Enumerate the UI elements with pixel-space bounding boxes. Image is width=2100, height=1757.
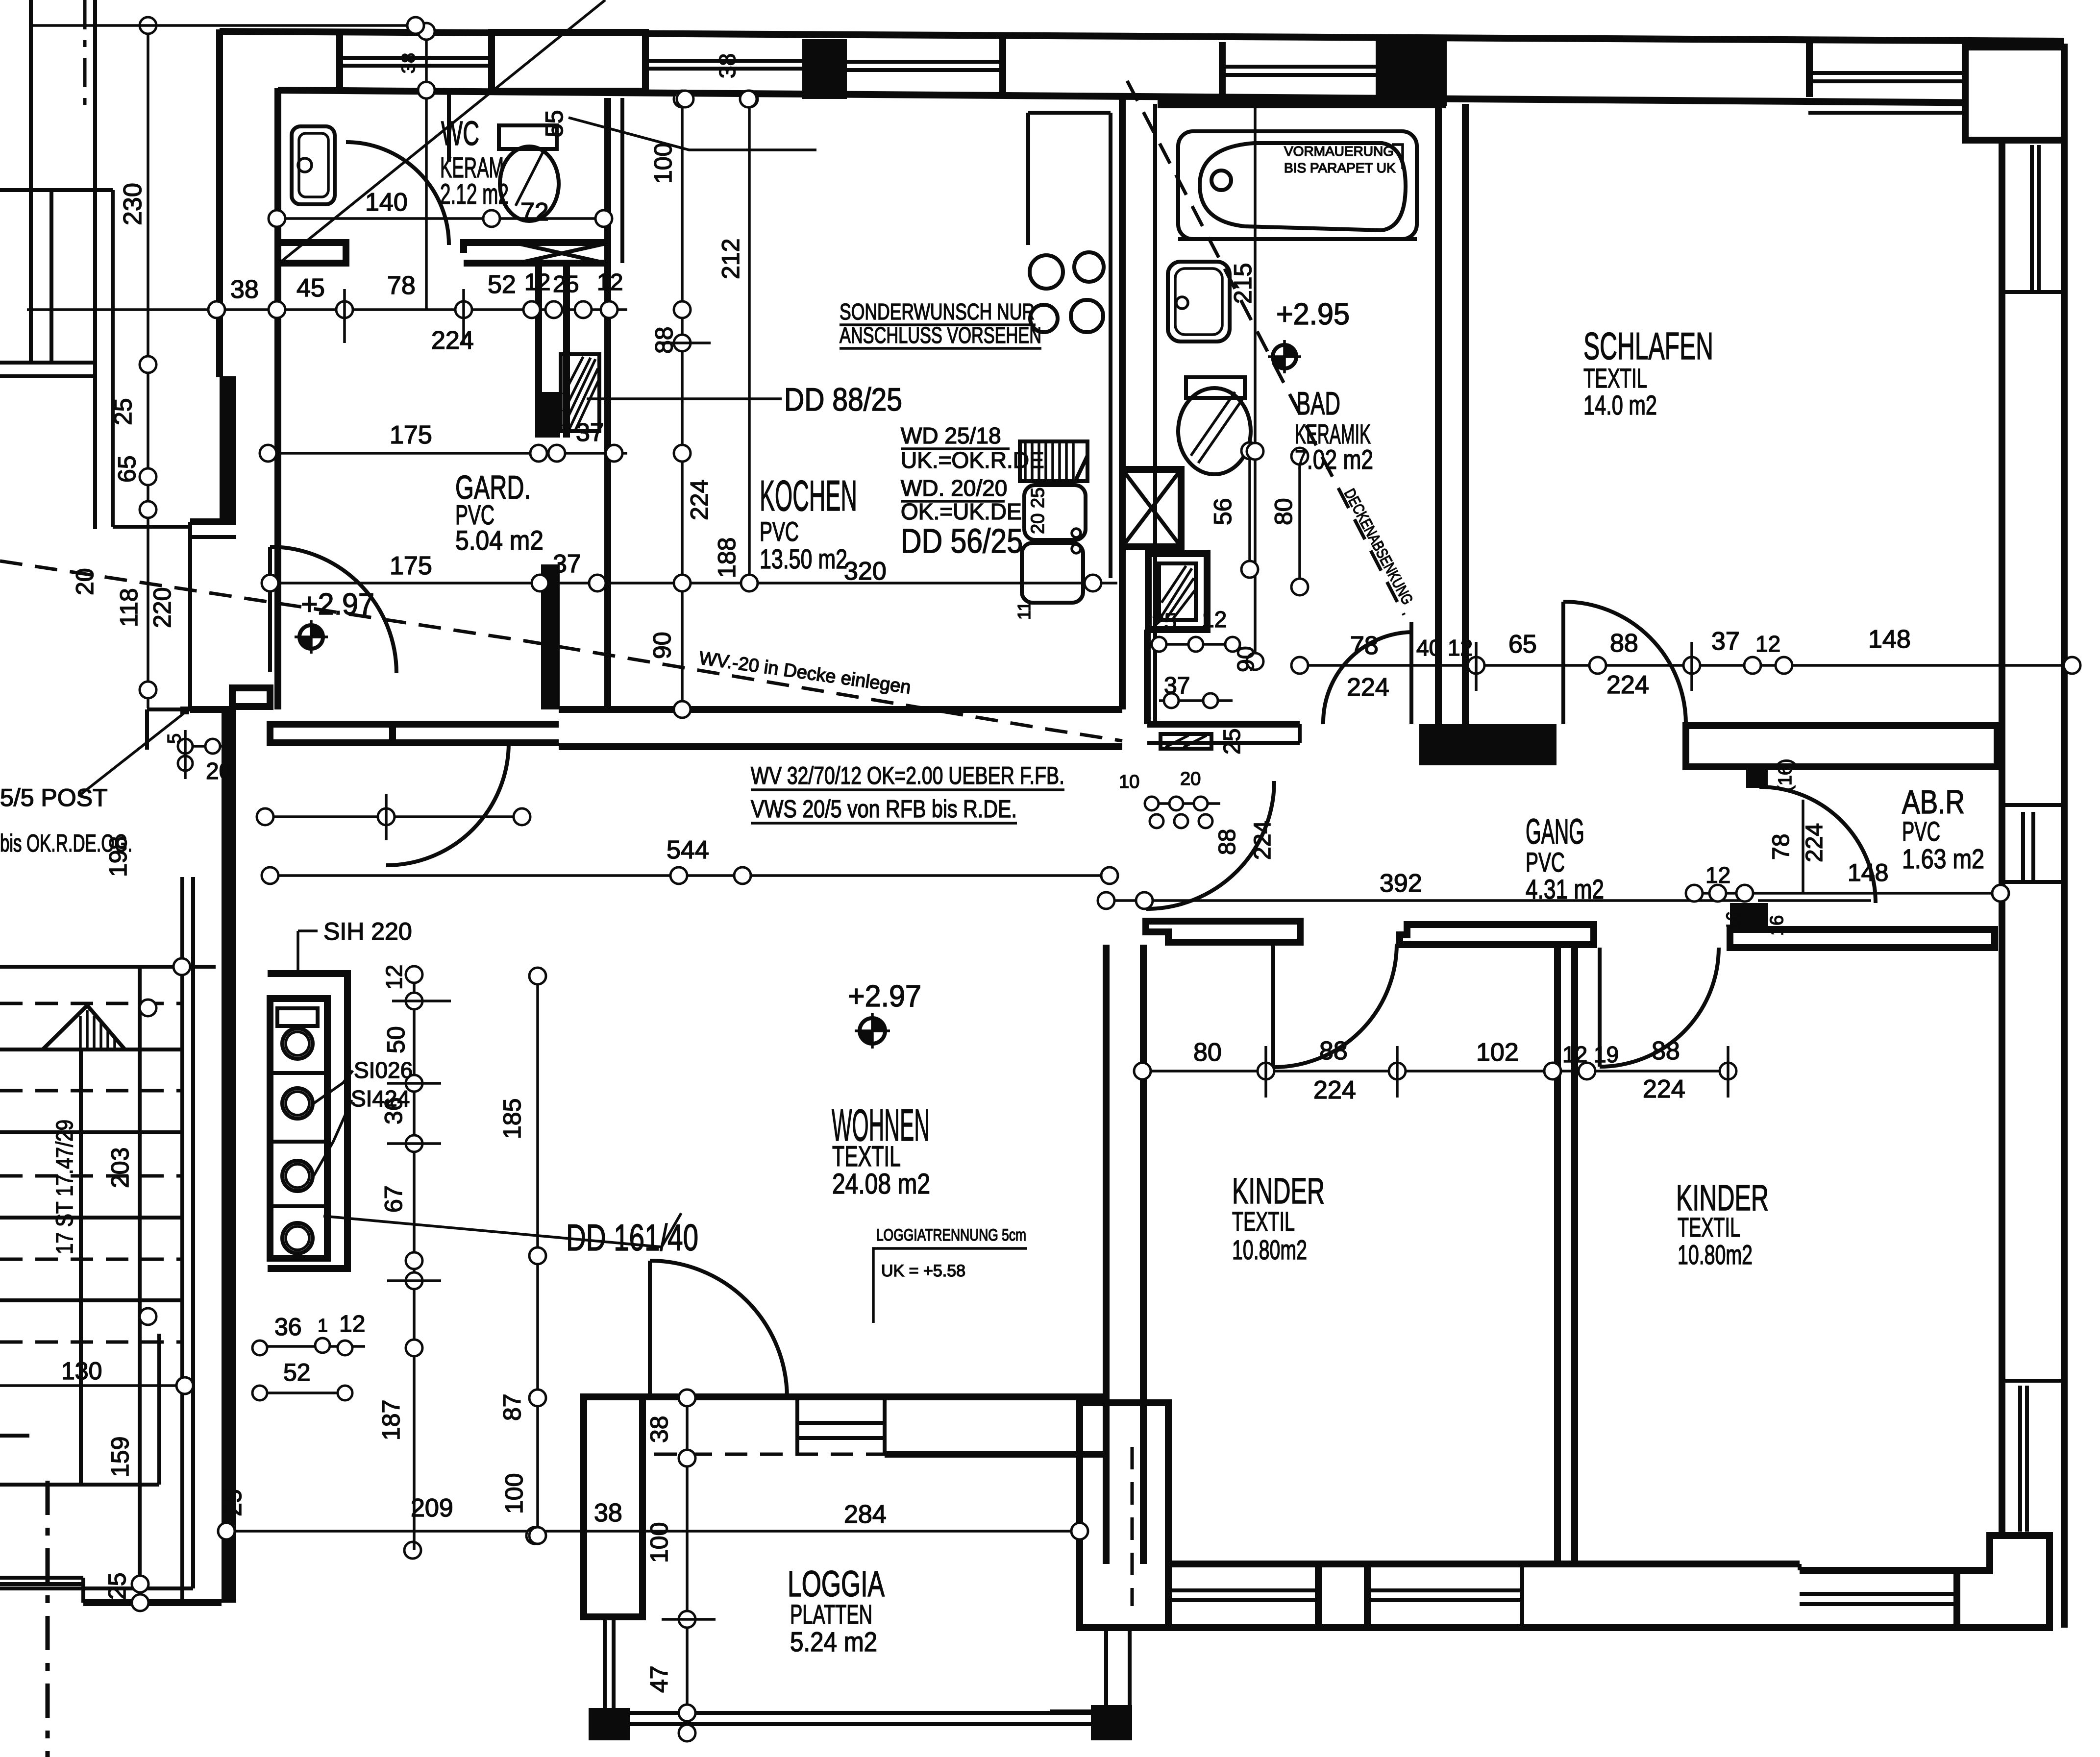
svg-text:12: 12 xyxy=(597,269,623,295)
ceiling light GARD xyxy=(295,620,328,654)
KINDER2 door leaf xyxy=(1598,948,1602,1067)
svg-text:198: 198 xyxy=(104,836,132,877)
svg-text:5/5 POST: 5/5 POST xyxy=(0,784,108,811)
svg-text:224: 224 xyxy=(1643,1075,1685,1103)
svg-text:1.63 m2: 1.63 m2 xyxy=(1902,843,1984,874)
window W2 glazing (KOCHEN) xyxy=(847,60,1002,64)
stove burners xyxy=(1030,255,1063,289)
svg-text:37: 37 xyxy=(1711,627,1740,656)
GANG bottom wall piece 1 (KINDER1 top-left) xyxy=(1146,921,1300,942)
GANG top wall right piece xyxy=(1686,726,1997,767)
svg-text:140: 140 xyxy=(365,188,408,217)
WC / GARD divider wall left piece xyxy=(278,243,346,263)
svg-text:118: 118 xyxy=(115,588,143,627)
svg-text:20: 20 xyxy=(71,568,99,595)
SCHLAFEN door swing arc xyxy=(1563,602,1686,724)
svg-text:38: 38 xyxy=(230,275,259,304)
wall pier (black) right of bath window xyxy=(1376,37,1447,106)
svg-text:90: 90 xyxy=(648,632,676,659)
svg-text:TEXTIL: TEXTIL xyxy=(1232,1206,1295,1237)
window W8 glazing (KINDER1 bottom) xyxy=(1168,1588,1318,1592)
loggia south-west black post xyxy=(589,1708,630,1740)
svg-text:78: 78 xyxy=(387,271,416,300)
svg-text:5.04 m2: 5.04 m2 xyxy=(455,525,544,556)
svg-text:PVC: PVC xyxy=(1526,847,1565,878)
svg-text:12: 12 xyxy=(1755,631,1780,657)
corridor wall top line (KOCHEN bottom) xyxy=(393,721,559,728)
svg-text:AB.R: AB.R xyxy=(1902,783,1965,821)
svg-text:544: 544 xyxy=(667,836,709,864)
WOHNEN-GANG door swing arc xyxy=(1146,781,1274,909)
entrance mini dim xyxy=(185,745,225,748)
meter circle 1 xyxy=(282,1028,313,1059)
WC sink xyxy=(292,126,335,204)
staircase vertical rails xyxy=(79,1049,83,1485)
neighbour wall top-left xyxy=(0,188,113,192)
window W5 glazing (SCHLAFEN right) xyxy=(2030,145,2034,292)
KOCHEN west wall (double) xyxy=(604,438,611,709)
shaft bottom black cap xyxy=(539,392,560,438)
bathtub drain xyxy=(1211,171,1231,190)
loggia east railing xyxy=(1104,1628,1108,1705)
svg-text:392: 392 xyxy=(1380,869,1422,898)
window W3 glazing over bathtub xyxy=(1222,65,1377,69)
svg-text:14.0 m2: 14.0 m2 xyxy=(1583,390,1657,420)
bathtub inner xyxy=(1200,143,1406,230)
svg-text:WD 25/18: WD 25/18 xyxy=(901,423,1001,448)
dim row y2186 (80 88 102 88) xyxy=(1142,1070,1728,1073)
svg-text:25: 25 xyxy=(1219,729,1245,755)
svg-text:(16): (16) xyxy=(1775,758,1796,792)
kitchen hatched worktop section xyxy=(1020,441,1087,481)
svg-text:DD 88/25: DD 88/25 xyxy=(784,381,902,417)
KINDER1 door leaf xyxy=(1271,944,1275,1067)
svg-text:175: 175 xyxy=(390,421,432,449)
top exterior wall inner line xyxy=(278,90,2002,103)
svg-text:224: 224 xyxy=(1802,823,1828,862)
bath inner top wall (dark) xyxy=(1158,99,1446,108)
svg-text:88: 88 xyxy=(650,326,678,354)
loggia railing south xyxy=(630,1711,1091,1715)
left loggia bottom lines xyxy=(83,1599,222,1606)
svg-text:4.31 m2: 4.31 m2 xyxy=(1526,874,1604,904)
svg-text:90: 90 xyxy=(1233,646,1259,672)
right exterior wall inner line xyxy=(1999,140,2005,1536)
svg-text:88: 88 xyxy=(1319,1037,1348,1065)
svg-text:224: 224 xyxy=(431,326,474,355)
svg-text:72: 72 xyxy=(520,198,549,226)
entrance niche west line xyxy=(188,522,192,711)
stair direction triangle xyxy=(43,1005,125,1049)
AB.R dim line vertical xyxy=(1802,800,1804,893)
WOHNEN loggia door leaf xyxy=(648,1261,652,1397)
svg-text:100: 100 xyxy=(500,1473,528,1514)
AB.R corner stub top (black) xyxy=(1746,764,1768,788)
meter circle 2 xyxy=(282,1088,313,1119)
BAD col x2550 (56) xyxy=(1248,451,1251,569)
svg-text:56: 56 xyxy=(1209,498,1236,525)
svg-text:PVC: PVC xyxy=(760,516,799,547)
dim vertical left column xyxy=(147,25,149,708)
AB.R door swing arc xyxy=(1759,787,1876,903)
svg-text:159: 159 xyxy=(106,1437,134,1477)
DD 88/25 leader xyxy=(587,397,782,400)
stair dim 130 xyxy=(0,1384,185,1387)
dim line top xyxy=(31,24,421,27)
svg-text:148: 148 xyxy=(1848,859,1888,886)
dash-dot axis bottom-left xyxy=(46,1481,50,1757)
KOCHEN west wall lower black bar xyxy=(541,564,560,709)
window W6 glazing (AB.R) xyxy=(2021,812,2025,882)
svg-text:12 19: 12 19 xyxy=(1562,1042,1619,1067)
svg-text:DD 56/25: DD 56/25 xyxy=(901,522,1023,560)
svg-text:130: 130 xyxy=(61,1357,102,1385)
svg-text:VORMAUERUNG: VORMAUERUNG xyxy=(1284,144,1394,159)
right wall joint above KINDER window xyxy=(2002,1379,2064,1383)
kitchen shaft hatched box xyxy=(1148,554,1207,630)
svg-text:37: 37 xyxy=(553,550,581,578)
wall pier (white) over WC xyxy=(492,32,645,91)
svg-text:WD. 20/20: WD. 20/20 xyxy=(901,475,1007,501)
svg-text:175: 175 xyxy=(390,552,432,580)
corridor wall bottom line (WOHNEN top) xyxy=(393,739,559,746)
svg-text:25: 25 xyxy=(553,271,579,297)
svg-text:38: 38 xyxy=(715,53,740,78)
svg-text:185: 185 xyxy=(498,1098,526,1139)
svg-text:224: 224 xyxy=(1313,1076,1356,1104)
KOCHEN east wall / BAD west wall xyxy=(1119,98,1126,709)
window W7 glazing (KINDER right) xyxy=(2018,1386,2022,1532)
svg-text:102: 102 xyxy=(1476,1038,1519,1067)
svg-text:WV 32/70/12 OK=2.00 UEBER F.FB: WV 32/70/12 OK=2.00 UEBER F.FB. xyxy=(751,762,1064,789)
dim col x1529 (212) xyxy=(748,99,751,583)
dim col x845 (12 50 36 67 187) xyxy=(413,975,416,1550)
electrical panel inner xyxy=(270,999,327,1258)
SCHLAFEN west wall (double) xyxy=(1435,98,1442,724)
gallery end walls xyxy=(0,361,95,365)
svg-text:ANSCHLUSS VORSEHEN: ANSCHLUSS VORSEHEN xyxy=(840,322,1041,348)
svg-text:45: 45 xyxy=(296,274,325,302)
kitchen appliance 1 xyxy=(1024,485,1086,540)
gallery inner vertical line xyxy=(93,0,97,529)
KOCHEN leader line y306 xyxy=(568,118,816,150)
svg-text:80: 80 xyxy=(1193,1038,1222,1067)
WOHNEN bottom wall bottom line segments xyxy=(885,1451,1109,1458)
svg-text:20 25: 20 25 xyxy=(1028,488,1048,534)
dim row y1787 (544) xyxy=(270,874,1110,877)
svg-text:+2.97: +2.97 xyxy=(848,979,921,1013)
SI424 leader xyxy=(314,1100,352,1176)
loggia west wall xyxy=(584,1397,642,1617)
svg-text:20: 20 xyxy=(1180,769,1201,789)
GANG bottom wall piece 3 (KINDER2 top) xyxy=(1730,929,1995,948)
dim row y446 (WC 140) xyxy=(277,217,604,220)
vormauerung bracket xyxy=(1392,145,1403,169)
entrance door leaf xyxy=(268,547,272,672)
dim row y1190 (175 37 320) xyxy=(270,582,1117,585)
dim row y3125 (209 284) xyxy=(226,1530,1080,1533)
svg-text:OK.=UK.DE: OK.=UK.DE xyxy=(901,499,1022,524)
WC toilet xyxy=(500,146,559,221)
entrance door arc xyxy=(270,547,396,673)
svg-text:100: 100 xyxy=(645,1522,673,1563)
svg-text:TEXTIL: TEXTIL xyxy=(1583,363,1647,393)
BAD door leaf xyxy=(1409,622,1413,724)
BAD washbasin xyxy=(1168,262,1230,342)
svg-text:203: 203 xyxy=(106,1147,134,1188)
staircase treads xyxy=(0,967,216,1300)
svg-text:78: 78 xyxy=(1350,632,1379,660)
svg-text:KINDER: KINDER xyxy=(1232,1171,1325,1211)
svg-text:10.80m2: 10.80m2 xyxy=(1232,1234,1307,1265)
window W4 glazing (SCHLAFEN top) xyxy=(1809,71,1965,75)
KINDER2 door swing arc xyxy=(1600,948,1719,1067)
WOHNEN bottom wall top line xyxy=(584,1393,1109,1400)
entrance niche cap bottom xyxy=(190,706,236,713)
loggia dim col x1402 xyxy=(686,1398,689,1733)
GANG top wall dark piece xyxy=(1419,724,1556,765)
bottom-left mini dims 36/12 xyxy=(260,1345,365,1348)
GARD-WOHNEN door leaf (closed) xyxy=(270,724,393,743)
wall band junction at centre axis xyxy=(999,38,1006,98)
top-right corner pier xyxy=(1965,47,2064,140)
GARD bottom wall small bar xyxy=(232,688,270,707)
wall pier (black) mid top xyxy=(802,39,847,99)
svg-text:GANG: GANG xyxy=(1526,812,1584,852)
svg-text:12: 12 xyxy=(381,965,407,990)
svg-text:37: 37 xyxy=(1164,673,1190,699)
WOHNEN / KINDER1 divider wall xyxy=(1103,945,1110,1564)
svg-text:209: 209 xyxy=(411,1494,453,1522)
party wall black upper xyxy=(220,376,236,523)
svg-text:+2.97: +2.97 xyxy=(301,587,374,621)
electrical panel outer xyxy=(268,974,347,1269)
loggia corner pier (KINDER1 bottom-left) xyxy=(1080,1403,1168,1628)
svg-text:37: 37 xyxy=(576,418,604,447)
svg-text:78: 78 xyxy=(1768,834,1794,860)
entrance leader to POST xyxy=(78,711,186,796)
svg-text:25: 25 xyxy=(1152,609,1177,634)
svg-text:+2.95: +2.95 xyxy=(1276,297,1350,331)
svg-text:12: 12 xyxy=(524,269,550,295)
dim row y1823 (148 AB.R) xyxy=(1694,892,2002,895)
svg-text:BAD: BAD xyxy=(1296,385,1340,421)
svg-text:88: 88 xyxy=(1652,1037,1680,1065)
BAD west wall lower xyxy=(1144,630,1151,724)
svg-text:38: 38 xyxy=(398,53,419,73)
dim row y1358 (GANG 78 65 88 37 148) xyxy=(1300,664,2072,667)
top wall junction post xyxy=(336,30,343,91)
bottom-right corner pier (L) xyxy=(1957,1536,2050,1628)
entrance niche cap top xyxy=(190,518,236,525)
loggia west railing xyxy=(603,1617,607,1708)
svg-text:PLATTEN: PLATTEN xyxy=(790,1599,872,1630)
long diagonal leader top-left xyxy=(277,0,605,265)
panel shelf lines xyxy=(270,1071,327,1075)
dashed line inside pier xyxy=(1131,1447,1134,1606)
svg-text:KOCHEN: KOCHEN xyxy=(760,471,857,520)
svg-text:65: 65 xyxy=(1508,630,1537,659)
ceiling light BAD xyxy=(1268,340,1301,373)
svg-text:88: 88 xyxy=(1610,629,1638,658)
svg-text:188: 188 xyxy=(713,537,741,578)
dim row y1838 (392) xyxy=(1106,899,1750,902)
bottom-left mini dim 52 xyxy=(260,1391,345,1394)
svg-text:UK.=OK.R.DE: UK.=OK.R.DE xyxy=(901,447,1044,473)
right wall joint above AB.R window xyxy=(2002,803,2064,807)
SI026 leader xyxy=(314,1071,353,1103)
GARD-WOHNEN door swing arc xyxy=(386,743,509,865)
SCHLAFEN door leaf xyxy=(1561,602,1565,724)
svg-text:215: 215 xyxy=(1229,263,1257,304)
svg-text:SIH 220: SIH 220 xyxy=(323,918,412,945)
svg-text:SONDERWUNSCH NUR: SONDERWUNSCH NUR xyxy=(840,299,1035,324)
bottom exterior wall bottom line xyxy=(1080,1624,1957,1631)
kitchen counter edge xyxy=(1109,113,1112,578)
kitchen counter back xyxy=(1026,113,1030,245)
svg-text:230: 230 xyxy=(119,183,147,225)
svg-text:284: 284 xyxy=(844,1500,887,1529)
WC east wall xyxy=(604,98,611,438)
svg-text:13.50 m2: 13.50 m2 xyxy=(760,543,847,574)
right exterior wall outer line xyxy=(2061,140,2068,1628)
svg-text:220: 220 xyxy=(148,587,176,628)
dim col x1392 (100 88 224 90) xyxy=(681,99,684,709)
svg-text:5.24 m2: 5.24 m2 xyxy=(790,1626,877,1657)
BAD mini dim block (25 12 90 37) xyxy=(1152,643,1240,646)
svg-text:12: 12 xyxy=(1705,862,1730,888)
WC door leaf xyxy=(447,88,451,162)
svg-text:24.08 m2: 24.08 m2 xyxy=(832,1168,930,1200)
WC west wall xyxy=(274,88,281,709)
meter circle 3 xyxy=(282,1161,313,1191)
svg-text:224: 224 xyxy=(1347,673,1389,702)
svg-text:25: 25 xyxy=(219,1489,247,1516)
svg-text:187: 187 xyxy=(377,1400,405,1440)
svg-text:SI026: SI026 xyxy=(354,1057,413,1083)
svg-text:LOGGIATRENNUNG 5cm: LOGGIATRENNUNG 5cm xyxy=(876,1226,1026,1245)
GANG entry pipe circles xyxy=(1145,802,1220,805)
ceiling light WOHNEN xyxy=(855,1013,890,1049)
loggia window glazing xyxy=(797,1421,885,1425)
svg-text:224: 224 xyxy=(1250,821,1276,860)
svg-text:11: 11 xyxy=(1014,602,1034,620)
WV duct symbol on corridor wall xyxy=(1161,734,1211,749)
loggia boundary dashed line xyxy=(584,1453,1080,1456)
window W1b glazing (KOCHEN) xyxy=(647,59,804,63)
svg-text:7.02 m2: 7.02 m2 xyxy=(1295,444,1373,475)
svg-text:87: 87 xyxy=(498,1393,526,1421)
window W10 glazing (KINDER2 bottom) xyxy=(1800,1592,1957,1596)
SIH leader xyxy=(298,931,318,974)
deckenabsenkung dashed diagonal xyxy=(1127,81,1404,615)
top wall window mini-dim xyxy=(677,91,693,107)
dim row y925 (175 12 37) xyxy=(268,452,627,455)
svg-text:UK = +5.58: UK = +5.58 xyxy=(881,1262,965,1280)
shaft hatched duct xyxy=(561,354,599,431)
shaft X brace xyxy=(518,244,606,263)
top exterior wall outer line xyxy=(220,31,2064,41)
BAD dim circles on x2561 xyxy=(1247,443,1263,460)
bathtub shelf line xyxy=(1178,237,1417,241)
svg-text:80: 80 xyxy=(1270,498,1297,525)
dashed WV duct diagonal xyxy=(0,561,1122,741)
svg-text:67: 67 xyxy=(380,1185,407,1213)
BAD door opening jamb xyxy=(1298,724,1302,743)
stair dim lower verticals xyxy=(139,1386,142,1603)
stair landing lines lower xyxy=(0,1483,159,1487)
svg-text:20: 20 xyxy=(206,758,232,784)
BAD door swing arc xyxy=(1323,632,1411,724)
WC / GARD divider wall right piece with shaft xyxy=(464,243,608,253)
svg-text:224: 224 xyxy=(1606,671,1649,699)
svg-text:25: 25 xyxy=(109,398,137,425)
svg-text:38: 38 xyxy=(594,1499,622,1527)
bottom exterior wall top line xyxy=(1168,1561,1800,1567)
svg-text:65: 65 xyxy=(113,455,141,483)
KINDER1 door swing arc xyxy=(1273,944,1397,1067)
svg-text:320: 320 xyxy=(844,557,887,586)
step edge left of party wall xyxy=(111,363,115,527)
kitchen shaft X box xyxy=(1122,469,1181,547)
gallery dash-dot axis xyxy=(83,0,87,105)
WC door arc xyxy=(346,142,449,245)
svg-text:17 ST 17.47/29: 17 ST 17.47/29 xyxy=(52,1120,78,1254)
svg-text:52: 52 xyxy=(283,1359,311,1386)
kitchen sink bowl xyxy=(1022,543,1083,603)
svg-text:WC: WC xyxy=(441,114,479,152)
svg-text:1: 1 xyxy=(318,1316,328,1336)
WOHNEN loggia door arc xyxy=(650,1261,787,1398)
svg-text:10.80m2: 10.80m2 xyxy=(1678,1239,1753,1270)
dim row y632 (38 45 78 52 12 25 12) xyxy=(27,308,627,311)
BAD toilet xyxy=(1178,388,1251,474)
gallery step lower xyxy=(147,708,190,711)
svg-text:VWS 20/5 von RFB bis R.DE.: VWS 20/5 von RFB bis R.DE. xyxy=(751,795,1017,823)
svg-text:SI424: SI424 xyxy=(351,1086,410,1111)
GANG top wall left piece (BAD bottom) xyxy=(1147,721,1300,728)
svg-text:5: 5 xyxy=(164,733,185,744)
gallery outer vertical line xyxy=(29,0,33,363)
dim line x870 through window xyxy=(425,25,428,310)
svg-text:PVC: PVC xyxy=(1902,816,1940,847)
svg-text:40 12: 40 12 xyxy=(1416,635,1473,660)
KINDER1 / KINDER2 divider wall xyxy=(1554,945,1561,1564)
svg-text:TEXTIL: TEXTIL xyxy=(1678,1212,1740,1243)
svg-text:55: 55 xyxy=(541,110,568,137)
svg-text:10: 10 xyxy=(1119,772,1139,792)
meter circle 4 xyxy=(282,1223,313,1253)
apartment west outer wall upper xyxy=(216,29,223,377)
svg-text:12: 12 xyxy=(339,1311,365,1337)
svg-text:224: 224 xyxy=(686,480,713,520)
svg-text:25: 25 xyxy=(103,1572,131,1600)
svg-text:DD 161/40: DD 161/40 xyxy=(566,1217,698,1259)
svg-text:36: 36 xyxy=(274,1313,302,1341)
neighbour loggia railing left stub xyxy=(1050,1709,1091,1713)
svg-text:212: 212 xyxy=(717,239,744,279)
BAD col x2652 (80) xyxy=(1298,456,1301,587)
loggiatrennung bracket xyxy=(873,1248,1027,1323)
shaft west wall xyxy=(535,263,542,438)
bathtub outer xyxy=(1178,131,1417,239)
bottom wall pier between windows xyxy=(1318,1564,1367,1628)
dim col x1097 (185 87 100) xyxy=(536,976,539,1536)
BAD vertical guide line xyxy=(1254,104,1257,661)
dim row y1667 (78 88 GARD door) xyxy=(265,815,522,818)
svg-text:16: 16 xyxy=(1723,911,1743,931)
svg-text:100: 100 xyxy=(649,143,677,184)
